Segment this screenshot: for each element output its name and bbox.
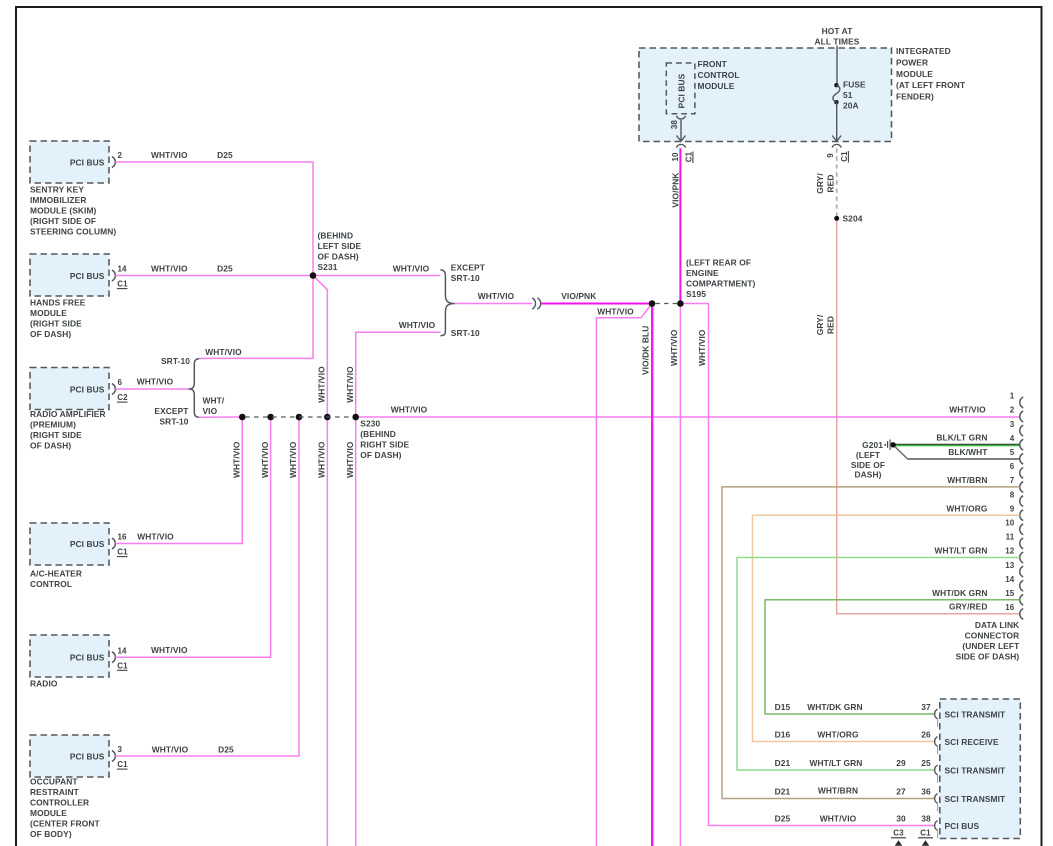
svg-text:BLK/LT GRN: BLK/LT GRN bbox=[936, 433, 987, 443]
svg-text:MODULE: MODULE bbox=[30, 308, 67, 318]
svg-text:16: 16 bbox=[1005, 603, 1015, 612]
svg-text:VIO: VIO bbox=[203, 406, 218, 416]
module SKIM connector pin 2 bbox=[112, 157, 115, 168]
svg-text:(PREMIUM): (PREMIUM) bbox=[30, 420, 76, 430]
svg-text:6: 6 bbox=[1010, 462, 1015, 471]
svg-text:4: 4 bbox=[1010, 434, 1015, 443]
wire WHT/DK GRN DLC pin 15 to SCI transmit pin 37 bbox=[765, 600, 1020, 714]
svg-text:WHT/ORG: WHT/ORG bbox=[946, 503, 987, 513]
svg-text:WHT/VIO: WHT/VIO bbox=[288, 441, 298, 478]
svg-text:WHT/LT GRN: WHT/LT GRN bbox=[935, 546, 988, 556]
svg-text:ENGINE: ENGINE bbox=[686, 268, 719, 278]
svg-text:RADIO: RADIO bbox=[30, 678, 58, 688]
wire SKIM PCI BUS WHT/VIO D25 to S231 bbox=[115, 162, 313, 276]
svg-text:CONTROLLER: CONTROLLER bbox=[30, 797, 89, 807]
wire WHT/LT GRN DLC pin 12 to SCI transmit pin 25 bbox=[737, 558, 1020, 771]
svg-text:SCI RECEIVE: SCI RECEIVE bbox=[945, 737, 999, 747]
svg-text:CONTROL: CONTROL bbox=[698, 70, 740, 80]
svg-text:(BEHIND: (BEHIND bbox=[360, 429, 396, 439]
svg-text:WHT/VIO: WHT/VIO bbox=[205, 347, 242, 357]
svg-text:FRONT: FRONT bbox=[698, 59, 728, 69]
module A/C-heater control box bbox=[30, 523, 109, 565]
svg-text:C1: C1 bbox=[117, 661, 128, 670]
svg-text:14: 14 bbox=[118, 265, 128, 274]
svg-text:WHT/VIO: WHT/VIO bbox=[949, 405, 986, 415]
svg-text:D25: D25 bbox=[775, 814, 791, 824]
svg-text:(RIGHT SIDE: (RIGHT SIDE bbox=[30, 430, 82, 440]
svg-text:S195: S195 bbox=[686, 289, 706, 299]
svg-text:PCI BUS: PCI BUS bbox=[70, 751, 105, 761]
svg-text:C1: C1 bbox=[117, 760, 128, 769]
wire GRY/RED from S204 to DLC pin 16 bbox=[837, 218, 1020, 613]
svg-text:GRY/RED: GRY/RED bbox=[949, 602, 988, 612]
svg-text:WHT/VIO: WHT/VIO bbox=[137, 532, 174, 542]
svg-text:C1: C1 bbox=[840, 151, 849, 162]
svg-text:WHT/VIO: WHT/VIO bbox=[391, 405, 428, 415]
svg-text:OF DASH): OF DASH) bbox=[318, 252, 359, 262]
svg-text:S231: S231 bbox=[318, 262, 338, 272]
svg-text:7: 7 bbox=[1010, 476, 1015, 485]
ground G201 bbox=[884, 444, 886, 446]
svg-text:WHT/VIO: WHT/VIO bbox=[345, 441, 355, 478]
svg-text:SIDE OF: SIDE OF bbox=[851, 460, 885, 470]
svg-text:D25: D25 bbox=[218, 744, 234, 754]
svg-text:OF BODY): OF BODY) bbox=[30, 829, 72, 839]
svg-text:WHT/DK GRN: WHT/DK GRN bbox=[932, 588, 987, 598]
wire S231 down to radio-amp brace SRT-10 branch WHT/VIO bbox=[199, 276, 313, 359]
svg-text:C1: C1 bbox=[920, 829, 931, 838]
svg-text:2: 2 bbox=[1010, 406, 1015, 415]
svg-text:12: 12 bbox=[1005, 547, 1015, 556]
module occupant restraint controller connector pin 3 bbox=[112, 751, 115, 762]
svg-text:(CENTER FRONT: (CENTER FRONT bbox=[30, 818, 100, 828]
svg-text:DATA LINK: DATA LINK bbox=[975, 620, 1019, 630]
svg-text:13: 13 bbox=[1005, 561, 1015, 570]
data link connector pins 1-16 bbox=[1020, 397, 1023, 408]
svg-text:EXCEPT: EXCEPT bbox=[451, 263, 486, 273]
svg-text:27: 27 bbox=[896, 787, 906, 797]
wire S230 column 5 down off page WHT/VIO bbox=[355, 417, 357, 846]
svg-text:COMPARTMENT): COMPARTMENT) bbox=[686, 279, 756, 289]
svg-text:VIO/PNK: VIO/PNK bbox=[561, 291, 596, 301]
svg-text:26: 26 bbox=[921, 730, 931, 740]
wire hands-free PCI BUS WHT/VIO D25 to S231 bbox=[115, 275, 313, 277]
svg-text:PCI BUS: PCI BUS bbox=[945, 821, 980, 831]
svg-text:16: 16 bbox=[118, 533, 128, 542]
svg-text:D15: D15 bbox=[775, 702, 791, 712]
wire brace to S230 WHT/VIO bbox=[199, 416, 242, 418]
wire S231 to brace EXCEPT SRT-10 WHT/VIO bbox=[313, 275, 441, 277]
splice S195 bbox=[649, 300, 656, 307]
svg-text:CONNECTOR: CONNECTOR bbox=[965, 631, 1020, 641]
svg-text:25: 25 bbox=[921, 758, 931, 768]
wire brace to inline connector WHT/VIO bbox=[455, 303, 533, 305]
svg-text:D21: D21 bbox=[775, 758, 791, 768]
wire FCM pin10 VIO/PNK down to S195 bbox=[679, 148, 681, 303]
wire BLK/LT GRN G201 to DLC pin 4 bbox=[896, 444, 1020, 446]
svg-text:20A: 20A bbox=[843, 101, 859, 111]
svg-text:WHT/VIO: WHT/VIO bbox=[478, 291, 515, 301]
svg-text:S204: S204 bbox=[843, 214, 863, 224]
svg-text:2: 2 bbox=[118, 151, 123, 160]
module radio connector pin 14 bbox=[112, 652, 115, 663]
svg-text:WHT/VIO: WHT/VIO bbox=[317, 441, 327, 478]
svg-text:WHT/BRN: WHT/BRN bbox=[818, 786, 858, 796]
svg-text:WHT/DK GRN: WHT/DK GRN bbox=[807, 702, 862, 712]
svg-text:SRT-10: SRT-10 bbox=[160, 417, 189, 427]
svg-text:PCI BUS: PCI BUS bbox=[70, 653, 105, 663]
module radio box bbox=[30, 635, 109, 677]
svg-text:G201: G201 bbox=[862, 440, 883, 450]
wire S231 diagonal down to S230 WHT/VIO bbox=[313, 276, 327, 418]
svg-text:SCI TRANSMIT: SCI TRANSMIT bbox=[945, 794, 1007, 804]
svg-text:(LEFT REAR OF: (LEFT REAR OF bbox=[686, 258, 751, 268]
svg-text:(AT LEFT FRONT: (AT LEFT FRONT bbox=[896, 80, 966, 90]
svg-text:14: 14 bbox=[1005, 575, 1015, 584]
svg-text:SRT-10: SRT-10 bbox=[451, 328, 480, 338]
svg-text:LEFT SIDE: LEFT SIDE bbox=[318, 241, 362, 251]
svg-text:WHT/VIO: WHT/VIO bbox=[151, 645, 188, 655]
splice S231 bbox=[310, 272, 317, 279]
svg-text:RADIO AMPLIFIER: RADIO AMPLIFIER bbox=[30, 409, 106, 419]
svg-text:38: 38 bbox=[670, 120, 679, 130]
svg-text:FUSE: FUSE bbox=[843, 80, 866, 90]
wire S230 to radio WHT/VIO bbox=[115, 417, 270, 657]
svg-text:D16: D16 bbox=[775, 730, 791, 740]
wire S195 WHT/VIO down off page bbox=[679, 304, 681, 846]
svg-text:ALL TIMES: ALL TIMES bbox=[815, 37, 860, 47]
svg-text:RESTRAINT: RESTRAINT bbox=[30, 787, 80, 797]
module hands free module box bbox=[30, 254, 109, 296]
svg-text:6: 6 bbox=[118, 378, 123, 387]
svg-text:SCI TRANSMIT: SCI TRANSMIT bbox=[945, 710, 1007, 720]
svg-text:RED: RED bbox=[826, 175, 836, 193]
svg-text:IMMOBILIZER: IMMOBILIZER bbox=[30, 195, 86, 205]
svg-text:WHT/VIO: WHT/VIO bbox=[317, 366, 327, 403]
svg-text:WHT/VIO: WHT/VIO bbox=[151, 150, 188, 160]
svg-text:PCI BUS: PCI BUS bbox=[70, 271, 105, 281]
brace EXCEPT SRT-10 / SRT-10 join bbox=[441, 270, 455, 336]
brace radio-amp SRT-10 / EXCEPT SRT-10 split bbox=[188, 359, 199, 418]
svg-text:5: 5 bbox=[1010, 448, 1015, 457]
svg-text:38: 38 bbox=[921, 814, 931, 824]
svg-text:WHT/VIO: WHT/VIO bbox=[151, 264, 188, 274]
svg-text:WHT/VIO: WHT/VIO bbox=[260, 441, 270, 478]
svg-text:OF DASH): OF DASH) bbox=[30, 441, 71, 451]
svg-text:D25: D25 bbox=[217, 150, 233, 160]
svg-text:10: 10 bbox=[1005, 519, 1015, 528]
svg-text:FENDER): FENDER) bbox=[896, 92, 934, 102]
svg-text:POWER: POWER bbox=[896, 57, 928, 67]
svg-text:10: 10 bbox=[671, 152, 680, 162]
svg-text:30: 30 bbox=[896, 814, 906, 824]
svg-text:D21: D21 bbox=[775, 787, 791, 797]
svg-text:EXCEPT: EXCEPT bbox=[154, 406, 189, 416]
fuse 51 20A bbox=[836, 46, 838, 85]
svg-text:MODULE (SKIM): MODULE (SKIM) bbox=[30, 206, 97, 216]
svg-text:C2: C2 bbox=[117, 393, 128, 402]
wire S230 to occupant restraint controller WHT/VIO D25 bbox=[115, 417, 299, 756]
module radio amplifier connector pin 6 bbox=[112, 384, 115, 395]
svg-text:WHT/VIO: WHT/VIO bbox=[345, 366, 355, 403]
module hands free module connector pin 14 bbox=[112, 270, 115, 281]
front control module inner box PCI BUS bbox=[666, 63, 695, 114]
svg-text:OF DASH): OF DASH) bbox=[360, 450, 401, 460]
svg-text:S230: S230 bbox=[360, 419, 380, 429]
svg-text:VIO/DK BLU: VIO/DK BLU bbox=[641, 326, 651, 375]
wire S230 column 4 down off page WHT/VIO bbox=[326, 417, 328, 846]
svg-text:WHT/: WHT/ bbox=[203, 396, 225, 406]
svg-text:OCCUPANT: OCCUPANT bbox=[30, 776, 78, 786]
svg-text:51: 51 bbox=[843, 90, 853, 100]
svg-text:INTEGRATED: INTEGRATED bbox=[896, 46, 951, 56]
svg-text:D25: D25 bbox=[217, 264, 233, 274]
wire S195 WHT/VIO to PCI BUS pin 38 bbox=[680, 304, 935, 826]
svg-text:15: 15 bbox=[1005, 589, 1015, 598]
wire WHT/BRN DLC pin 7 to SCI transmit pin 36 bbox=[722, 487, 1020, 799]
svg-text:SRT-10: SRT-10 bbox=[161, 356, 190, 366]
module A/C-heater control connector pin 16 bbox=[112, 538, 115, 549]
engine control module box bbox=[940, 699, 1021, 839]
module radio amplifier box bbox=[30, 368, 109, 410]
svg-text:29: 29 bbox=[896, 758, 906, 768]
svg-text:HANDS FREE: HANDS FREE bbox=[30, 298, 86, 308]
svg-text:WHT/VIO: WHT/VIO bbox=[669, 329, 679, 366]
svg-text:GRY/: GRY/ bbox=[815, 173, 825, 194]
svg-text:GRY/: GRY/ bbox=[815, 314, 825, 335]
svg-text:WHT/BRN: WHT/BRN bbox=[947, 475, 987, 485]
svg-text:DASH): DASH) bbox=[854, 469, 881, 479]
svg-text:SENTRY KEY: SENTRY KEY bbox=[30, 185, 84, 195]
svg-text:WHT/ORG: WHT/ORG bbox=[817, 730, 858, 740]
svg-text:SRT-10: SRT-10 bbox=[451, 273, 480, 283]
svg-text:3: 3 bbox=[118, 745, 123, 754]
module SKIM box bbox=[30, 141, 109, 183]
wire BLK/WHT G201 to DLC pin 5 bbox=[893, 445, 908, 459]
svg-text:(LEFT: (LEFT bbox=[856, 450, 881, 460]
svg-text:WHT/VIO: WHT/VIO bbox=[697, 329, 707, 366]
wire S230 to data link connector pin 2 WHT/VIO bbox=[356, 416, 1020, 418]
svg-text:WHT/VIO: WHT/VIO bbox=[231, 441, 241, 478]
wire S230 to A/C-heater control WHT/VIO bbox=[115, 417, 242, 544]
svg-text:36: 36 bbox=[921, 787, 931, 797]
splice S230 bbox=[239, 414, 246, 421]
wire S195 branch WHT/VIO down-left off page bbox=[596, 304, 652, 846]
IPM connector C1 pin 9 bbox=[832, 144, 841, 147]
integrated power module box bbox=[639, 48, 892, 142]
svg-text:9: 9 bbox=[1010, 504, 1015, 513]
svg-text:37: 37 bbox=[921, 702, 931, 712]
splice S204 bbox=[834, 216, 839, 221]
svg-text:WHT/VIO: WHT/VIO bbox=[820, 814, 857, 824]
svg-text:WHT/VIO: WHT/VIO bbox=[152, 744, 189, 754]
svg-text:3: 3 bbox=[1010, 420, 1015, 429]
svg-text:STEERING COLUMN): STEERING COLUMN) bbox=[30, 227, 116, 237]
svg-text:PCI BUS: PCI BUS bbox=[70, 539, 105, 549]
svg-text:11: 11 bbox=[1006, 533, 1015, 542]
wire GRY/RED dashed from fuse to S204 bbox=[836, 148, 838, 218]
svg-text:PCI BUS: PCI BUS bbox=[70, 157, 105, 167]
inline connector bbox=[532, 298, 535, 309]
wire S230 up to brace SRT-10 branch WHT/VIO bbox=[356, 332, 441, 417]
svg-text:VIO/PNK: VIO/PNK bbox=[670, 172, 680, 207]
svg-text:C3: C3 bbox=[893, 829, 904, 838]
wire VIO/DK BLU S195 down off page bbox=[651, 304, 653, 846]
FCM pin 38 lead with arrow bbox=[676, 116, 685, 119]
svg-text:8: 8 bbox=[1010, 490, 1015, 499]
svg-text:C1: C1 bbox=[117, 280, 128, 289]
svg-text:(RIGHT SIDE: (RIGHT SIDE bbox=[30, 319, 82, 329]
svg-text:WHT/VIO: WHT/VIO bbox=[399, 320, 436, 330]
svg-text:SCI TRANSMIT: SCI TRANSMIT bbox=[945, 766, 1007, 776]
engine module connector rows bbox=[935, 709, 938, 719]
wire WHT/ORG DLC pin 9 to SCI receive pin 26 bbox=[753, 515, 1020, 741]
svg-text:(BEHIND: (BEHIND bbox=[318, 231, 354, 241]
svg-text:RIGHT SIDE: RIGHT SIDE bbox=[360, 440, 409, 450]
IPM connector C1 pin 10 bbox=[676, 144, 685, 147]
svg-text:PCI BUS: PCI BUS bbox=[676, 73, 686, 108]
svg-text:PCI BUS: PCI BUS bbox=[70, 384, 105, 394]
svg-text:14: 14 bbox=[118, 646, 128, 655]
svg-text:WHT/VIO: WHT/VIO bbox=[393, 263, 430, 273]
svg-text:OF DASH): OF DASH) bbox=[30, 329, 71, 339]
svg-text:1: 1 bbox=[1010, 392, 1015, 401]
svg-text:(UNDER LEFT: (UNDER LEFT bbox=[962, 641, 1020, 651]
svg-text:WHT/VIO: WHT/VIO bbox=[597, 306, 634, 316]
svg-text:MODULE: MODULE bbox=[30, 808, 67, 818]
svg-text:(RIGHT SIDE OF: (RIGHT SIDE OF bbox=[30, 216, 96, 226]
svg-text:MODULE: MODULE bbox=[698, 81, 735, 91]
module occupant restraint controller box bbox=[30, 735, 109, 777]
svg-text:C1: C1 bbox=[684, 151, 693, 162]
svg-text:MODULE: MODULE bbox=[896, 69, 933, 79]
svg-text:WHT/VIO: WHT/VIO bbox=[137, 377, 174, 387]
svg-text:C1: C1 bbox=[117, 548, 128, 557]
svg-text:CONTROL: CONTROL bbox=[30, 579, 72, 589]
svg-text:WHT/LT GRN: WHT/LT GRN bbox=[810, 758, 863, 768]
svg-text:A/C-HEATER: A/C-HEATER bbox=[30, 569, 82, 579]
wire VIO/PNK to S195 bbox=[541, 303, 652, 305]
wire radio amplifier PCI BUS WHT/VIO bbox=[115, 388, 188, 390]
svg-text:SIDE OF DASH): SIDE OF DASH) bbox=[956, 652, 1020, 662]
svg-text:9: 9 bbox=[826, 153, 835, 158]
svg-text:HOT AT: HOT AT bbox=[822, 26, 854, 36]
svg-text:BLK/WHT: BLK/WHT bbox=[948, 447, 988, 457]
svg-text:RED: RED bbox=[826, 316, 836, 334]
